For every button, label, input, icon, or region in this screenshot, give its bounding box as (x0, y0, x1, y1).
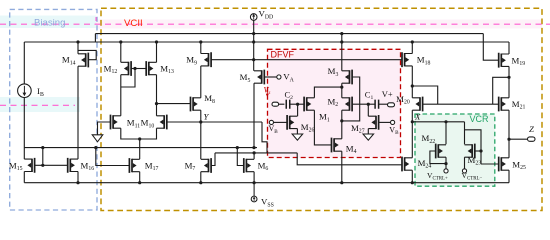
transistor M9 (201, 52, 211, 67)
junction VDD rail2 (252, 40, 255, 43)
junction node Y (199, 120, 202, 123)
cyan highlight band middle (0, 97, 80, 112)
junction node X (411, 120, 414, 123)
transistor M4 (332, 138, 342, 153)
wire M24 drain to X (411, 122, 413, 158)
wire M17 source (139, 172, 141, 183)
wire node Y lower line (215, 152, 297, 154)
wire M17 gate tap (96, 148, 130, 166)
node VCTRL- terminal (462, 169, 466, 173)
wire M18 source (411, 42, 413, 54)
wire M10 source (140, 128, 157, 139)
junction M5 on bias line (252, 146, 255, 149)
wire M14 source to M16 drain (77, 66, 79, 159)
VCR box (415, 114, 495, 186)
wire M5 source column (253, 83, 255, 147)
wire M12 gate loop (121, 69, 135, 88)
transistor M18 (402, 52, 412, 67)
junction M17 gate tap (94, 146, 97, 149)
wire M18 drain column (411, 66, 413, 98)
transistor M1 (304, 97, 314, 112)
wire node X bus (412, 121, 464, 123)
wire M13 source to M10 drain (156, 75, 158, 116)
transistor M3 (342, 70, 352, 85)
ground arrow M26 (292, 134, 303, 140)
DFVF box (268, 49, 401, 157)
wire M2 source to M4 drain (341, 110, 343, 139)
VDD supply symbol (250, 14, 257, 21)
wire M25 gate (481, 163, 499, 165)
junction M13 drain on rail (155, 40, 158, 43)
svg-text:Biasing: Biasing (34, 18, 65, 29)
transistor M11 (111, 115, 121, 130)
node VB terminal right (391, 120, 395, 124)
wire Z stub (509, 138, 528, 140)
wire Y staircase (262, 122, 267, 153)
junction gate bus VDD column (252, 58, 255, 61)
DFVF region pink fill (268, 49, 401, 157)
wire M12 drain (120, 42, 122, 62)
wire C1 left (368, 103, 375, 105)
pink highlight band top (96, 20, 542, 29)
transistor M5 (254, 70, 264, 85)
transistor M19 (499, 53, 509, 68)
junction M22 source loop (444, 162, 447, 165)
terminal Z stadium (528, 137, 536, 141)
wire M20 M21 gate bus (423, 103, 499, 105)
junction M11 M10 sources (138, 137, 141, 140)
transistor M7 (201, 158, 211, 173)
wire M8 source to Y (200, 110, 202, 122)
wire tail to M17 drain (139, 139, 141, 159)
wire M1 source to M4 gate (314, 110, 331, 145)
junction node C2 M1 M26 (296, 103, 299, 106)
junction VDD rail1 (252, 32, 255, 35)
transistor M6 (244, 158, 254, 173)
wire bias line (24, 147, 257, 149)
ground arrow M27 (363, 134, 374, 140)
wire M5 gate to VA (264, 76, 277, 78)
transistor M17 (129, 158, 139, 173)
junction M17 source on rail (138, 181, 141, 184)
wire M3 to M2 (341, 83, 343, 98)
wire M27 drain (367, 104, 369, 116)
junction M3 source node (340, 86, 343, 89)
transistor M10 (157, 115, 167, 130)
wire M4 source (341, 151, 343, 183)
node VB terminal left (269, 120, 273, 124)
wire M19 drain branch (493, 77, 509, 104)
junction bias gate tap (41, 146, 44, 149)
wire M15 M16 gates (35, 148, 68, 166)
transistor M14 (78, 53, 88, 68)
wire M27 gate to VB (379, 121, 391, 123)
wire M9 source (200, 42, 202, 54)
junction gates line (41, 164, 44, 167)
wire M7 gate (211, 153, 215, 166)
wire M20 source to X (411, 110, 413, 122)
wire M12 M13 gates (131, 68, 146, 70)
junction M18 source on rail (411, 40, 414, 43)
wire M14 diode loop (78, 50, 96, 59)
wire M6 source (253, 172, 255, 183)
junction M9 source on rail (199, 40, 202, 43)
capacitor C1 (375, 100, 379, 109)
wire input to C2 (279, 103, 285, 105)
wire M3 source column (341, 34, 343, 71)
wire M26 drain (297, 104, 299, 116)
terminal input stadium (272, 102, 279, 106)
transistor M2 (342, 97, 352, 112)
wire M25 source (508, 170, 510, 183)
wire VDD rail lower (24, 41, 509, 43)
wire M7 source (200, 172, 202, 183)
junction M6 gate tap (236, 146, 239, 149)
current source IB (18, 84, 32, 98)
wire M24 source (411, 170, 413, 183)
Biasing box (10, 9, 97, 210)
junction M3 rail1 (340, 32, 343, 35)
transistor M25 (499, 157, 509, 172)
wire M22 source (445, 157, 447, 169)
cyan highlight band top (0, 16, 96, 29)
svg-text:V+: V+ (382, 89, 393, 99)
junction gates M12 M13 (133, 67, 136, 70)
wire M23 source (464, 157, 466, 169)
VCII box (101, 8, 542, 210)
wire M3 gate riser (342, 77, 360, 121)
wire M21 source to Z (508, 110, 510, 158)
wire IB bottom to M15 drain (23, 98, 25, 160)
wire M23 diode loop (465, 130, 482, 164)
junction node Z (507, 138, 510, 141)
wire M26 source (296, 129, 298, 134)
wire branch to M24 gate (297, 153, 402, 165)
wire M6 gate tap (237, 148, 244, 166)
junction X M22 drain (444, 120, 447, 123)
wire M22 gate loop (430, 151, 446, 164)
red arrow annotation (266, 91, 269, 98)
transistor M16 (68, 158, 78, 173)
transistor M22 (436, 144, 446, 159)
transistor M21 (499, 97, 509, 112)
wire C2 to M1 gate (290, 103, 304, 105)
ground arrow M11 gate (92, 135, 103, 142)
wire M19 source corner (508, 42, 510, 54)
junction node M13 M10 M8gate (155, 102, 158, 105)
VCR region green fill (415, 114, 495, 186)
transistor M12 (121, 61, 131, 76)
junction node C1 M27 (367, 103, 370, 106)
junction M7 source on rail (199, 181, 202, 184)
transistor M24 (402, 157, 412, 172)
wire M18 M20 diode loop (412, 86, 437, 104)
terminal V+ stadium (388, 103, 395, 107)
junction M3 rail2 (340, 40, 343, 43)
wire node Y (167, 121, 262, 123)
transistor M23 (465, 144, 475, 159)
transistor M27 (368, 115, 378, 130)
magenta tick (95, 17, 97, 24)
wire M15 source (23, 172, 25, 183)
wire M11 gate to arrow (98, 122, 111, 135)
junction M19 M21 node (507, 76, 510, 79)
wire M14 drain (77, 42, 79, 54)
transistor M26 (287, 115, 297, 130)
VSS supply symbol (251, 183, 257, 202)
wire IB top (23, 42, 25, 84)
wire M2 gate to C1 node (352, 103, 368, 105)
wire C1 to Vplus (379, 103, 388, 105)
transistor M8 (191, 97, 201, 112)
junction M23 gate loop (479, 149, 482, 152)
magenta dashed line top (0, 23, 550, 25)
wire M1 drain (314, 87, 341, 98)
wire M11 source (121, 128, 140, 139)
svg-text:VCR: VCR (470, 114, 490, 124)
svg-text:X: X (414, 111, 421, 121)
wire VDD column (253, 20, 255, 71)
wire M16 source (77, 172, 79, 183)
wire M23 gate stub (475, 150, 481, 152)
wire M27 source (367, 129, 369, 134)
wire M19 drain (508, 66, 510, 97)
magenta dashed line middle (0, 104, 75, 106)
svg-text:Z: Z (529, 124, 534, 134)
wire M9 gate bus to M18 gate (211, 59, 402, 61)
transistor M13 (146, 61, 156, 76)
junction VSS tap (253, 181, 256, 184)
wire M9 drain to M8 drain (200, 66, 202, 98)
junction M24 source on rail (411, 181, 414, 184)
wire VSS bottom rail (24, 182, 509, 184)
junction M6 drain tap (253, 151, 256, 154)
svg-text:DFVF: DFVF (271, 50, 295, 60)
junction M12 drain on rail (119, 40, 122, 43)
wire M12 source to M11 drain (120, 75, 122, 116)
junction M4 source on rail (340, 181, 343, 184)
wire M8 gate (157, 103, 191, 105)
node VCTRL+ terminal (444, 169, 448, 173)
transistor M20 (412, 97, 422, 112)
svg-text:VCII: VCII (124, 18, 143, 29)
wire M22 drain (445, 122, 447, 145)
wire M23 drain (464, 122, 466, 145)
capacitor C2 (286, 100, 290, 109)
wire M7 drain to Y (200, 122, 202, 159)
junction node M2 M4 (340, 119, 343, 122)
node VA terminal (277, 75, 281, 79)
wire M6 drain (253, 153, 255, 159)
wire rail1 right corner to M19 gate (483, 34, 498, 61)
wire VDD rail upper (95, 34, 483, 42)
junction M14 drain on rail (76, 40, 79, 43)
junction M16 source on rail (76, 181, 79, 184)
junction M18 M20 diode node (411, 84, 414, 87)
wire M26 gate to VB (274, 121, 288, 123)
transistor M15 (24, 158, 34, 173)
wire M13 drain (156, 42, 158, 62)
